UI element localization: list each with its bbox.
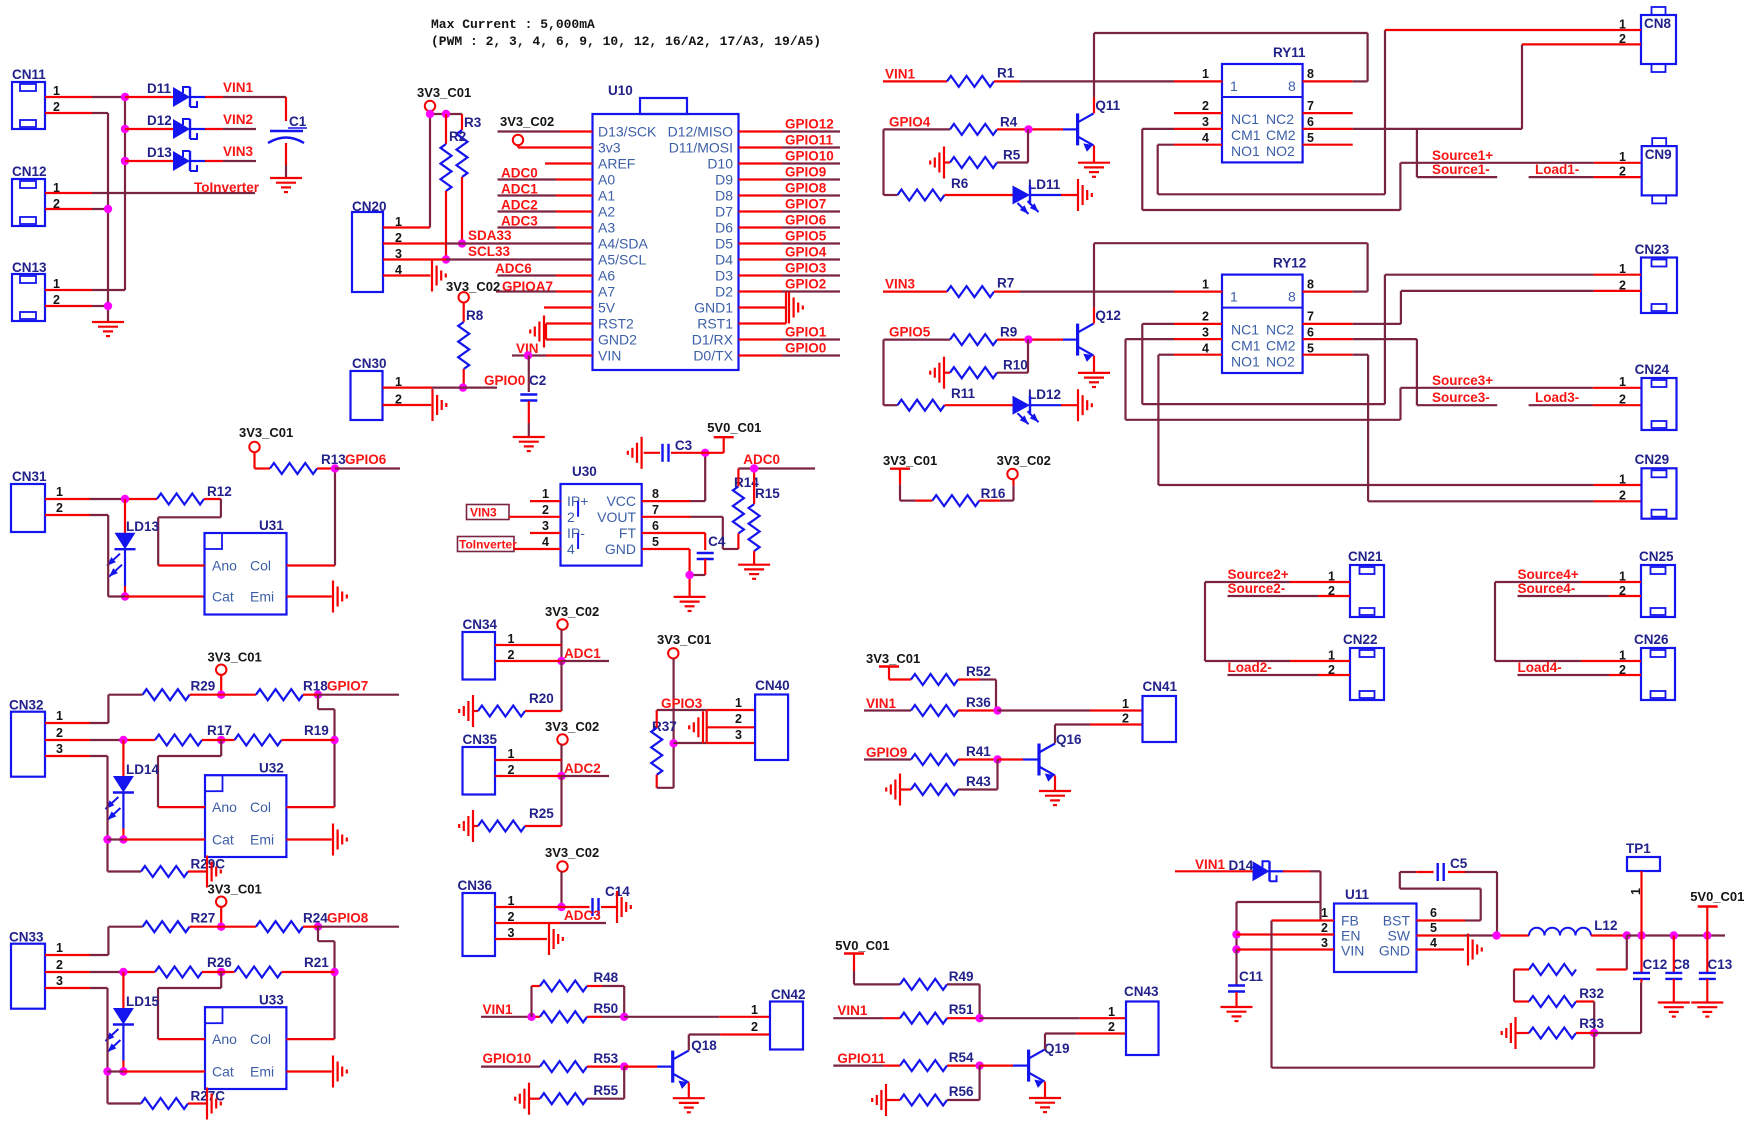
junction [103, 835, 111, 843]
svg-text:VIN1: VIN1 [223, 80, 254, 95]
wire collector [688, 1035, 690, 1051]
ground [673, 1097, 705, 1099]
wire 5V stub [544, 306, 593, 308]
junction [104, 302, 112, 310]
svg-text:D1/RX: D1/RX [692, 332, 734, 348]
svg-text:VIN2: VIN2 [223, 112, 253, 127]
wire NC2 [1303, 323, 1353, 325]
wire GPIO2 [739, 290, 783, 292]
svg-text:R7: R7 [997, 276, 1014, 291]
wire to led [945, 194, 1013, 196]
ground [472, 810, 474, 842]
junction [1590, 1029, 1598, 1037]
junction [557, 772, 565, 780]
wire bracket RST2-GND2 [545, 324, 547, 340]
wire bracket D2-RST1 [785, 292, 787, 324]
svg-text:2: 2 [542, 503, 549, 517]
wire [282, 739, 335, 741]
wire VIN [1237, 948, 1335, 950]
svg-text:(PWM : 2, 3, 4, 6, 9, 10, 12,: (PWM : 2, 3, 4, 6, 9, 10, 12, 16/A2, 17/… [431, 34, 821, 49]
svg-text:CN32: CN32 [9, 698, 44, 713]
wire AREF stub [545, 162, 593, 164]
wire CN23.2 [1401, 290, 1594, 292]
svg-text:3: 3 [1202, 326, 1209, 340]
wire to base [997, 339, 1028, 341]
wire emitter [688, 1083, 690, 1099]
svg-text:GPIO7: GPIO7 [327, 679, 368, 694]
svg-text:D5: D5 [715, 236, 733, 252]
wire FB loop [1270, 921, 1272, 1068]
wire VOUT [642, 516, 691, 518]
svg-text:Emi: Emi [250, 589, 274, 605]
svg-text:CM2: CM2 [1266, 338, 1296, 354]
wire FB sense [1593, 1033, 1595, 1068]
wire gpio [303, 694, 318, 696]
svg-text:R43: R43 [966, 774, 991, 789]
wire Cat [108, 1070, 124, 1072]
junction [314, 691, 322, 699]
svg-text:ToInverter: ToInverter [194, 180, 260, 195]
wire CN30.1 GPIO0 [383, 387, 432, 389]
svg-text:NC1: NC1 [1231, 322, 1259, 338]
junction [103, 1067, 111, 1075]
wire GPIO11 [739, 146, 783, 148]
wire to Source1- [1416, 129, 1418, 177]
power circle 3v3 [513, 135, 523, 145]
svg-text:D2: D2 [715, 284, 733, 300]
ground [702, 711, 704, 743]
svg-text:3v3: 3v3 [598, 140, 621, 156]
ground [1039, 790, 1071, 792]
wire [1495, 660, 1581, 662]
svg-text:R25: R25 [529, 806, 554, 821]
svg-text:CN36: CN36 [458, 878, 493, 893]
svg-text:A4/SDA: A4/SDA [598, 236, 648, 252]
svg-text:GPIO8: GPIO8 [785, 181, 827, 196]
svg-text:D11: D11 [147, 81, 172, 96]
svg-text:D14: D14 [1229, 858, 1254, 873]
svg-text:Q16: Q16 [1056, 732, 1082, 747]
wire tie [706, 710, 708, 743]
wire CN20.1 [383, 226, 430, 228]
wire bus vertical pin1s [124, 97, 126, 290]
svg-text:Emi: Emi [250, 832, 274, 848]
wire NO2 [1303, 354, 1353, 356]
svg-text:CN12: CN12 [12, 164, 47, 179]
svg-text:R12: R12 [207, 484, 232, 499]
ground [1029, 1097, 1061, 1099]
svg-text:D3: D3 [715, 268, 733, 284]
svg-text:CN35: CN35 [463, 732, 498, 747]
wire VIN2 [223, 128, 256, 130]
wire [1270, 870, 1284, 872]
svg-text:LD15: LD15 [126, 994, 160, 1009]
wire GND1 [739, 306, 787, 308]
wire CN20.3 SCL33 [383, 258, 446, 260]
wire CM1 [1174, 338, 1222, 340]
svg-text:Source2-: Source2- [1228, 581, 1286, 596]
svg-text:ADC1: ADC1 [501, 182, 538, 197]
wire GPIO10 [739, 162, 783, 164]
wire CN23.1 [1385, 274, 1594, 276]
wire 3v3 [518, 146, 593, 148]
svg-text:Source2+: Source2+ [1228, 567, 1289, 582]
svg-text:2: 2 [1202, 99, 1209, 113]
wire [190, 694, 222, 696]
wire GPIO5 [739, 242, 783, 244]
svg-text:L12: L12 [1594, 918, 1617, 933]
svg-text:D10: D10 [707, 156, 733, 172]
svg-text:C1: C1 [289, 114, 307, 129]
ground [616, 891, 618, 923]
svg-text:BST: BST [1383, 913, 1411, 929]
svg-text:FT: FT [619, 525, 637, 541]
svg-text:C4: C4 [708, 534, 726, 549]
ground [1077, 179, 1079, 211]
ground [513, 436, 545, 438]
junction [1232, 930, 1240, 938]
wire CN8.2 [1522, 43, 1641, 45]
wire CN30.2 [383, 404, 432, 406]
wire CN31.1 [45, 498, 90, 500]
svg-text:LD12: LD12 [1028, 387, 1061, 402]
wire pin1 [45, 954, 90, 956]
wire [560, 872, 562, 908]
wire gpio riser [882, 129, 884, 195]
svg-text:U32: U32 [259, 761, 284, 776]
svg-text:6: 6 [652, 519, 659, 533]
wire top row [108, 926, 142, 928]
wire [188, 1102, 207, 1104]
svg-text:Q19: Q19 [1044, 1041, 1070, 1056]
svg-text:3: 3 [1202, 115, 1209, 129]
junction [1637, 931, 1645, 939]
svg-text:GPIO11: GPIO11 [837, 1051, 886, 1066]
wire BST [1417, 919, 1466, 921]
wire R bottom [108, 870, 142, 872]
wire [202, 739, 235, 741]
svg-text:R11: R11 [951, 386, 976, 401]
wire NC2 riser [1400, 291, 1402, 324]
wire pin3 [45, 755, 90, 757]
wire emitter [1093, 145, 1095, 162]
svg-text:ADC2: ADC2 [501, 198, 538, 213]
svg-text:D4: D4 [715, 252, 733, 268]
svg-text:3: 3 [542, 519, 549, 533]
svg-text:TP1: TP1 [1626, 841, 1651, 856]
svg-text:GND1: GND1 [694, 300, 733, 316]
svg-text:R54: R54 [949, 1050, 974, 1065]
svg-text:RY12: RY12 [1273, 256, 1306, 271]
svg-text:SDA33: SDA33 [468, 228, 512, 243]
svg-text:GPIO1: GPIO1 [785, 325, 827, 340]
svg-text:GPIO2: GPIO2 [785, 277, 826, 292]
svg-text:VIN1: VIN1 [866, 696, 897, 711]
wire anode step [220, 740, 222, 756]
junction [620, 1013, 628, 1021]
wire to CN42.1 [624, 1016, 719, 1018]
wire ADC0 [498, 178, 557, 180]
svg-text:2: 2 [735, 712, 742, 726]
wire pin1 [495, 759, 562, 761]
svg-text:A7: A7 [598, 284, 615, 300]
wire GND [642, 548, 690, 550]
wire [886, 1099, 900, 1101]
wire pin1 [45, 722, 90, 724]
svg-text:AREF: AREF [598, 156, 635, 172]
svg-text:RST1: RST1 [697, 316, 733, 332]
svg-text:2: 2 [751, 1020, 758, 1034]
wire emitter [1054, 776, 1056, 792]
svg-text:Cat: Cat [212, 589, 234, 605]
junction [104, 205, 112, 213]
wire GPIO4 [739, 258, 783, 260]
svg-text:U30: U30 [572, 464, 597, 479]
wire [723, 437, 725, 453]
junction [557, 903, 565, 911]
wire emitter [1044, 1082, 1046, 1098]
wire [560, 630, 562, 662]
wire base [998, 758, 1024, 760]
wire to Col riser [317, 695, 319, 710]
svg-text:CM1: CM1 [1231, 338, 1261, 354]
svg-text:FB: FB [1341, 913, 1359, 929]
svg-text:R1: R1 [997, 65, 1015, 80]
svg-text:1: 1 [1122, 697, 1129, 711]
svg-text:R36: R36 [966, 695, 991, 710]
wire GPIO12 [739, 130, 783, 132]
wire [188, 870, 207, 872]
wire GPIO11 [833, 1064, 883, 1066]
wire CM2 [1303, 128, 1353, 130]
junction [442, 255, 450, 263]
junction [993, 706, 1001, 714]
wire [672, 659, 674, 744]
wire R48 riser [530, 986, 532, 1017]
svg-text:2: 2 [1321, 921, 1328, 935]
wire [529, 1098, 540, 1100]
wire [1576, 1000, 1594, 1002]
ground [206, 1088, 208, 1120]
svg-text:CN22: CN22 [1343, 632, 1378, 647]
wire NO1 run [1157, 145, 1159, 195]
svg-text:3: 3 [1321, 936, 1328, 950]
ground [431, 389, 433, 421]
svg-text:1: 1 [1619, 375, 1626, 389]
wire VIN [512, 354, 528, 356]
junction [1670, 931, 1678, 939]
wire NC1 stub [1174, 112, 1222, 114]
svg-text:3V3_C01: 3V3_C01 [657, 632, 711, 647]
svg-text:5V0_C01: 5V0_C01 [707, 420, 761, 435]
svg-text:U11: U11 [1345, 887, 1370, 902]
svg-text:Load1-: Load1- [1535, 162, 1579, 177]
wire top row [108, 694, 142, 696]
svg-text:CN43: CN43 [1124, 984, 1159, 999]
junction [557, 657, 565, 665]
svg-text:SW: SW [1387, 928, 1410, 944]
svg-text:LD11: LD11 [1028, 177, 1061, 192]
wire to base [997, 128, 1028, 130]
svg-text:A5/SCL: A5/SCL [598, 252, 646, 268]
svg-text:Source4+: Source4+ [1518, 567, 1579, 582]
wire Emi [286, 1070, 331, 1072]
svg-text:GPIO6: GPIO6 [785, 213, 827, 228]
svg-text:A0: A0 [598, 172, 615, 188]
svg-text:1: 1 [1230, 289, 1238, 305]
junction [750, 464, 758, 472]
svg-text:8: 8 [1288, 78, 1296, 94]
junction [1492, 931, 1500, 939]
svg-text:ADC2: ADC2 [564, 761, 601, 776]
svg-text:CN42: CN42 [771, 987, 806, 1002]
svg-text:C11: C11 [1239, 969, 1264, 984]
junction [330, 736, 338, 744]
svg-text:3V3_C01: 3V3_C01 [239, 425, 293, 440]
wire Col [286, 1038, 334, 1040]
junction [331, 464, 339, 472]
svg-text:R19: R19 [304, 723, 329, 738]
svg-text:RST2: RST2 [598, 316, 634, 332]
ground [1078, 372, 1110, 374]
wire collector [1093, 243, 1095, 307]
wire R to base [997, 372, 1028, 374]
svg-text:1: 1 [1321, 906, 1328, 920]
svg-text:NC2: NC2 [1266, 111, 1294, 127]
wire CM2 to Source3- [1416, 339, 1418, 405]
svg-text:CN25: CN25 [1639, 549, 1674, 564]
junction [442, 110, 450, 118]
svg-text:U10: U10 [608, 83, 633, 98]
svg-text:D6: D6 [715, 220, 733, 236]
svg-text:R15: R15 [755, 486, 780, 501]
junction [330, 968, 338, 976]
wire VCC [642, 500, 691, 502]
junction [458, 239, 466, 247]
wire [525, 710, 562, 712]
wire Emi [286, 838, 331, 840]
svg-text:5: 5 [1307, 131, 1314, 145]
wire [317, 467, 335, 469]
junction [217, 968, 225, 976]
junction [1024, 125, 1032, 133]
svg-text:GPIO12: GPIO12 [785, 117, 834, 132]
svg-text:R52: R52 [966, 664, 991, 679]
wire NC1 [1174, 323, 1222, 325]
svg-text:VIN1: VIN1 [483, 1002, 514, 1017]
svg-text:GPIO9: GPIO9 [866, 745, 907, 760]
wire collector [1044, 1034, 1046, 1050]
svg-text:2: 2 [1108, 1020, 1115, 1034]
wire [587, 1065, 624, 1067]
svg-text:8: 8 [1307, 278, 1314, 292]
svg-text:Cat: Cat [212, 1064, 234, 1080]
wire collector top [1094, 242, 1368, 244]
svg-text:3: 3 [56, 742, 63, 756]
svg-text:R55: R55 [593, 1083, 618, 1098]
junction [121, 495, 129, 503]
svg-text:R53: R53 [593, 1051, 618, 1066]
svg-text:1: 1 [56, 941, 63, 955]
wire CN12.1 ToInverter [45, 192, 92, 194]
wire FB [1272, 919, 1335, 921]
wire Emi [287, 595, 332, 597]
ground [472, 695, 474, 727]
ground [543, 316, 545, 348]
wire GND2 [546, 338, 593, 340]
svg-text:A3: A3 [598, 220, 615, 236]
wire Source4- [1518, 595, 1610, 597]
svg-text:GND: GND [605, 541, 636, 557]
ground [528, 1083, 530, 1115]
wire [473, 825, 478, 827]
wire pin2 row [45, 739, 90, 741]
wire GPIO5 [884, 339, 951, 341]
wire pin3 [674, 742, 707, 744]
svg-text:Ano: Ano [212, 799, 237, 815]
svg-text:A6: A6 [598, 268, 615, 284]
svg-text:CM2: CM2 [1266, 127, 1296, 143]
netbox VIN3 [467, 505, 510, 520]
ground [1658, 1001, 1690, 1003]
svg-text:Ano: Ano [212, 558, 237, 574]
svg-text:3V3_C01: 3V3_C01 [883, 453, 937, 468]
wire [944, 372, 950, 374]
svg-text:C2: C2 [529, 373, 546, 388]
svg-text:3V3_C02: 3V3_C02 [545, 604, 599, 619]
svg-text:GPIO4: GPIO4 [785, 245, 827, 260]
svg-text:Load2-: Load2- [1228, 660, 1272, 675]
ground [548, 923, 550, 955]
junction [119, 736, 127, 744]
wire [947, 1017, 980, 1019]
connector CN8 [1641, 15, 1676, 64]
wire [888, 667, 890, 680]
wire [1516, 1032, 1530, 1034]
wire [587, 1098, 624, 1100]
wire RST1 [739, 322, 787, 324]
wire Load3- [1529, 404, 1593, 406]
svg-text:A1: A1 [598, 188, 615, 204]
wire CN36.3 [495, 938, 547, 940]
wire VIN1 [833, 1017, 883, 1019]
junction [119, 1067, 127, 1075]
wire collector top [1094, 32, 1368, 34]
wire Col [287, 564, 336, 566]
junction [426, 110, 434, 118]
svg-text:R26: R26 [207, 955, 232, 970]
svg-text:VIN: VIN [1341, 943, 1364, 959]
ground [788, 292, 790, 324]
svg-text:7: 7 [652, 503, 659, 517]
svg-text:1: 1 [735, 696, 742, 710]
svg-text:2: 2 [1619, 489, 1626, 503]
svg-text:C13: C13 [1708, 957, 1733, 972]
ground [899, 774, 901, 806]
svg-text:NO2: NO2 [1266, 143, 1295, 159]
svg-text:SCL33: SCL33 [468, 244, 511, 259]
wire base [624, 1065, 657, 1067]
wire [587, 985, 602, 987]
wire Source4+ [1495, 581, 1581, 583]
wire pin2 row [45, 971, 90, 973]
svg-text:GPIO0: GPIO0 [484, 373, 525, 388]
wire [947, 1064, 980, 1066]
junction [121, 592, 129, 600]
wire Load4- [1518, 674, 1610, 676]
svg-text:A2: A2 [598, 204, 615, 220]
wire NO1 [1174, 144, 1222, 146]
